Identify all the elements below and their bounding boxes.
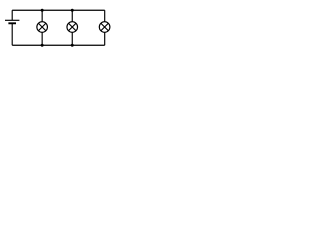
wire bottom rail <box>12 44 105 46</box>
lamp L3 <box>99 22 110 33</box>
battery B1 short plate <box>8 22 16 24</box>
wire lamp L2 bottom lead <box>71 32 73 45</box>
wire battery bottom lead <box>11 23 13 45</box>
wire lamp L3 bottom lead <box>104 32 106 45</box>
wire lamp L1 bottom lead <box>41 32 43 45</box>
battery B1 long plate <box>5 19 19 21</box>
wire top rail <box>12 9 105 11</box>
lamp L1 <box>37 22 48 33</box>
junction dot L2 top <box>71 9 74 12</box>
junction dot L1 top <box>41 9 44 12</box>
wire lamp L2 top lead <box>71 10 73 22</box>
wire lamp L1 top lead <box>41 10 43 22</box>
wire lamp L3 top lead <box>104 10 106 22</box>
junction dot L1 bottom <box>41 44 44 47</box>
wire battery top stub <box>11 10 13 20</box>
junction dot L2 bottom <box>71 44 74 47</box>
lamp L2 <box>67 22 78 33</box>
